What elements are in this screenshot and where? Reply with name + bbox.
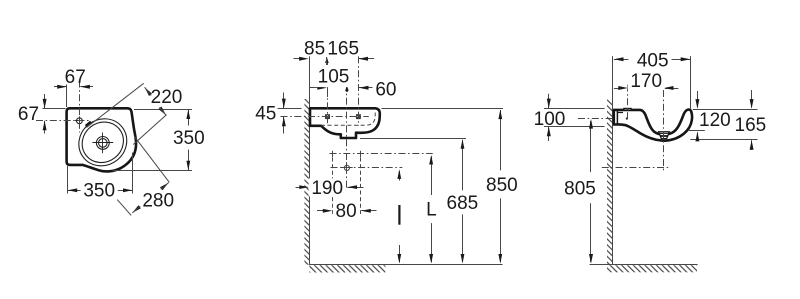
dim 170 label bbox=[628, 71, 665, 89]
dim 67 left extension line bbox=[43, 108, 66, 110]
hole1 axis solid tick bbox=[327, 86, 329, 97]
dim 120/165 top extension bbox=[693, 109, 758, 111]
dim 100 dimension line bbox=[548, 94, 550, 108]
svg-text:280: 280 bbox=[142, 191, 174, 212]
fixing left dashed drop line bbox=[332, 158, 334, 215]
dim 405 dimension row bbox=[614, 59, 629, 61]
dim 45 top extension bbox=[278, 108, 302, 110]
drain inner circle bbox=[99, 139, 108, 148]
dim 220 extension line lower bbox=[133, 115, 166, 145]
dim 685 extension line bbox=[360, 138, 466, 140]
svg-text:165: 165 bbox=[327, 39, 359, 60]
dim 67 left dimension line bbox=[44, 94, 46, 109]
middle wall line bbox=[309, 56, 311, 264]
svg-text:45: 45 bbox=[255, 104, 276, 125]
svg-text:67: 67 bbox=[18, 104, 39, 125]
drain outer circle bbox=[96, 137, 109, 150]
svg-text:170: 170 bbox=[630, 71, 662, 92]
dim 350 right bottom extension bbox=[113, 170, 193, 172]
dim 105 label bbox=[315, 65, 351, 87]
right floor line bbox=[590, 264, 698, 266]
dim 120 bottom extension bbox=[689, 130, 705, 132]
svg-text:67: 67 bbox=[65, 67, 86, 88]
middle hidden rim dashed bbox=[321, 113, 375, 126]
dim 850 extension line bbox=[382, 108, 504, 110]
bowl outer rim bbox=[69, 109, 136, 175]
right wall hatching bbox=[607, 100, 613, 265]
drain thread section bbox=[659, 132, 670, 139]
svg-text:60: 60 bbox=[375, 80, 396, 101]
overflow mark bbox=[86, 122, 91, 126]
dim 850 dimension line bbox=[500, 110, 502, 262]
dim 405 label bbox=[634, 51, 671, 69]
right wall line bbox=[612, 56, 614, 265]
dim 67 top dimension line bbox=[54, 86, 67, 88]
right basin section outline bbox=[614, 110, 692, 141]
middle floor hatching bbox=[309, 265, 385, 272]
dim 220 arrows bbox=[145, 87, 152, 96]
dim 190 dimension row bbox=[296, 187, 301, 189]
svg-text:165: 165 bbox=[735, 115, 767, 136]
dim 350 bottom right extension bbox=[132, 153, 134, 194]
hole2 vertical axis bbox=[358, 56, 360, 126]
tap axis centerline bbox=[627, 85, 629, 119]
dim 280 extension line lower bbox=[117, 200, 131, 216]
dim 80 dimension row bbox=[317, 210, 324, 212]
fixing hole left bbox=[325, 115, 329, 119]
fixing right dashed drop line bbox=[360, 158, 362, 215]
drain point circle cross bbox=[344, 165, 349, 170]
dim 850 label bbox=[483, 170, 521, 198]
svg-text:350: 350 bbox=[173, 128, 205, 149]
unlabeled dimension lower shaft bbox=[399, 245, 401, 262]
fixing point right cross bbox=[358, 153, 364, 155]
svg-text:120: 120 bbox=[699, 110, 731, 131]
tap hole bump bbox=[624, 108, 631, 110]
svg-text:805: 805 bbox=[564, 178, 596, 199]
middle basin outline bbox=[310, 108, 380, 138]
deck underside line bbox=[617, 112, 623, 114]
dim 350 right top extension bbox=[134, 109, 192, 111]
svg-text:100: 100 bbox=[534, 109, 566, 130]
dim 120 arrows bbox=[697, 91, 699, 108]
dim 165 bottom extension bbox=[690, 139, 757, 141]
svg-text:850: 850 bbox=[486, 175, 518, 196]
dim 685 label bbox=[443, 190, 481, 214]
fixing point left cross bbox=[330, 153, 336, 155]
svg-text:350: 350 bbox=[83, 181, 115, 202]
dim 350 bottom left extension bbox=[67, 166, 69, 194]
drain cross bbox=[92, 142, 113, 144]
dim 105 dimension row bbox=[309, 87, 318, 89]
tap vertical centerline bbox=[79, 81, 81, 133]
dim 685 dimension line bbox=[462, 140, 464, 262]
unlabeled dimension upper shaft bbox=[399, 171, 401, 181]
svg-text:L: L bbox=[426, 200, 437, 221]
trap level dash-dot line right view bbox=[602, 167, 669, 169]
dim L label bbox=[422, 195, 441, 223]
dim 60 arrow bbox=[359, 87, 373, 89]
dim 80 label bbox=[333, 201, 360, 219]
svg-text:105: 105 bbox=[318, 67, 350, 88]
drain axis marker bbox=[345, 85, 348, 91]
mounting tab inner line bbox=[616, 111, 618, 125]
middle floor line bbox=[309, 264, 502, 266]
svg-text:685: 685 bbox=[447, 193, 479, 214]
svg-text:190: 190 bbox=[311, 178, 343, 199]
left view: corner basin plan outline bbox=[67, 108, 136, 171]
dim 350 bottom label bbox=[81, 181, 118, 199]
drain point centerline bbox=[331, 167, 403, 169]
drain vertical axis bbox=[346, 84, 348, 188]
dim 350 bottom dimension line bbox=[68, 190, 133, 192]
svg-text:405: 405 bbox=[637, 50, 669, 71]
dim 190 label bbox=[309, 178, 346, 196]
right floor hatching bbox=[607, 265, 697, 272]
tap hole bbox=[77, 118, 83, 124]
dim 45 dimension line bbox=[283, 93, 285, 109]
drain axis centerline right view bbox=[663, 90, 665, 172]
dim 805 label bbox=[561, 172, 599, 203]
svg-text:220: 220 bbox=[151, 87, 183, 108]
unlabeled dimension I bar bbox=[398, 205, 400, 225]
dim 100 top extension bbox=[544, 108, 605, 110]
bowl inner rim bbox=[74, 114, 132, 171]
fixing dot bbox=[626, 118, 628, 120]
dim L dimension line bbox=[431, 157, 433, 263]
dim 280 arrows bbox=[160, 183, 169, 191]
dim 350 right dimension line bbox=[188, 109, 190, 170]
fixing points centerline bbox=[330, 153, 433, 155]
dim 350 right label bbox=[170, 126, 208, 150]
dim 170 dimension row bbox=[614, 88, 619, 90]
holes horizontal centerline bbox=[281, 116, 369, 118]
svg-text:85: 85 bbox=[304, 39, 325, 60]
dim 805 top extension dashdot bbox=[578, 118, 613, 120]
dim 280 extension line upper bbox=[134, 136, 169, 182]
dim 405 right extension bbox=[690, 56, 692, 108]
dim 805 dimension line bbox=[590, 121, 592, 262]
svg-text:80: 80 bbox=[336, 201, 357, 222]
dim 220 extension line upper bbox=[87, 83, 144, 127]
hole1 vertical axis bbox=[327, 61, 329, 126]
dim 67 top extension line bbox=[66, 85, 68, 108]
dim 85/165 dimension row bbox=[294, 58, 301, 60]
fixing hole right bbox=[356, 115, 360, 119]
dim 100 bottom extension bbox=[544, 126, 605, 128]
middle wall hatching bbox=[304, 99, 309, 265]
dim 165 arrows bbox=[751, 90, 753, 108]
tap horizontal centerline bbox=[36, 120, 89, 122]
